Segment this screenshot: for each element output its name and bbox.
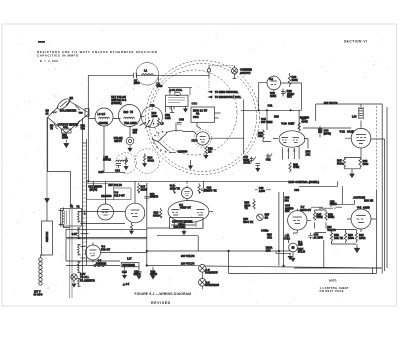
svg-text:△ 6-7: △ 6-7 bbox=[122, 282, 130, 286]
filament row box 1 bbox=[66, 229, 147, 237]
svg-text:A450: A450 bbox=[259, 189, 266, 193]
crystal oven box bbox=[166, 95, 189, 106]
bus 180 volts bbox=[147, 266, 380, 269]
tube V-10 envelope bbox=[279, 131, 305, 147]
svg-text:330K: 330K bbox=[302, 119, 308, 123]
tube V-6 bbox=[182, 188, 193, 199]
wire R cluster top bbox=[315, 225, 327, 233]
switch S-3 wafer contacts bbox=[152, 131, 171, 153]
svg-text:V-2: V-2 bbox=[269, 77, 273, 81]
wire antenna riser bbox=[208, 66, 210, 79]
wire V5 right bbox=[209, 211, 213, 213]
svg-text:K = 1,000: K = 1,000 bbox=[40, 59, 58, 63]
filament tap wires bbox=[81, 212, 126, 224]
terminal E1 bbox=[207, 69, 210, 72]
label to microvolt dial bbox=[209, 96, 213, 98]
svg-text:6.3V: 6.3V bbox=[72, 232, 78, 236]
svg-text:A-FC XTAL: A-FC XTAL bbox=[169, 88, 183, 92]
label 117 jumper bbox=[48, 287, 49, 289]
svg-text:REVISED: REVISED bbox=[151, 301, 171, 305]
svg-text:500: 500 bbox=[285, 198, 290, 202]
cap C18 bbox=[144, 183, 149, 202]
trimmer C33 bbox=[266, 154, 272, 160]
svg-text:180Ω: 180Ω bbox=[359, 236, 365, 240]
tube V-5 envelope bbox=[168, 201, 209, 223]
svg-text:220K: 220K bbox=[141, 187, 147, 191]
svg-text:L17: L17 bbox=[127, 257, 132, 261]
filament taps dots bbox=[88, 181, 90, 183]
resistor R64 bbox=[157, 118, 159, 127]
jack pulse input bbox=[126, 137, 134, 145]
svg-text:750: 750 bbox=[81, 126, 86, 130]
right bundle verticals bbox=[372, 139, 382, 274]
cap C14 cluster bbox=[116, 164, 121, 169]
svg-text:R43: R43 bbox=[274, 115, 279, 119]
svg-text:FIGURE 6-1 —WIRING DIAGRAM: FIGURE 6-1 —WIRING DIAGRAM bbox=[135, 292, 192, 296]
V5 triode b bbox=[197, 210, 205, 216]
svg-text:330K: 330K bbox=[328, 215, 334, 219]
svg-text:OC3/VR75: OC3/VR75 bbox=[205, 271, 218, 275]
svg-text:1K: 1K bbox=[208, 149, 211, 153]
tube V-2 bbox=[267, 76, 281, 90]
wire cathode join bbox=[344, 169, 360, 172]
wire C49 row bbox=[255, 189, 271, 191]
L17 box bbox=[121, 263, 139, 267]
meter needle bbox=[60, 100, 71, 108]
wire V2 plate bbox=[281, 83, 302, 110]
wire C37 bbox=[353, 198, 359, 200]
coil L1 shield circle bbox=[136, 63, 159, 86]
svg-text:C32: C32 bbox=[266, 157, 271, 161]
trimmer C47 bbox=[250, 157, 256, 163]
svg-text:L40: L40 bbox=[352, 114, 357, 118]
wire bus drop dots bbox=[266, 110, 267, 111]
wire chokes down bbox=[89, 119, 131, 173]
svg-text:TNA: TNA bbox=[124, 121, 129, 125]
wire v8 top bbox=[92, 243, 94, 263]
wire V1 out bbox=[203, 138, 244, 146]
svg-text:2600 TK: 2600 TK bbox=[170, 186, 180, 190]
vertical pair feed bbox=[279, 192, 284, 266]
svg-text:ON NEXT PAGE: ON NEXT PAGE bbox=[320, 289, 344, 293]
wire V5 bottom rail bbox=[171, 224, 195, 226]
svg-text:5604 TK: 5604 TK bbox=[243, 220, 253, 224]
svg-text:300Ω: 300Ω bbox=[148, 158, 154, 162]
resistor R59 bbox=[330, 233, 332, 243]
bus 330 volts bbox=[89, 180, 289, 182]
dashed can D2 bbox=[135, 149, 160, 174]
resistor R51 bbox=[205, 146, 207, 155]
ground xtal bbox=[184, 109, 188, 112]
svg-text:C14: C14 bbox=[115, 169, 120, 173]
right outer bus bbox=[382, 104, 387, 268]
svg-text:60 CPS: 60 CPS bbox=[34, 293, 43, 297]
svg-text:100K: 100K bbox=[292, 78, 298, 82]
svg-text:R25 100Ω: R25 100Ω bbox=[174, 225, 186, 229]
long vertical feed bbox=[146, 183, 148, 266]
resistor in D2 bbox=[143, 154, 145, 163]
svg-text:12K: 12K bbox=[266, 248, 271, 252]
svg-text:(100V): (100V) bbox=[90, 187, 98, 191]
ground switch bbox=[190, 160, 192, 166]
T1 secondary 5 bbox=[78, 279, 81, 287]
cap C28 bbox=[122, 267, 127, 275]
coil L4 bbox=[124, 117, 135, 118]
ground V12 cathode bbox=[351, 172, 353, 174]
wire V7 bottom bbox=[293, 233, 297, 234]
V5 triode a bbox=[172, 210, 180, 216]
V10 pins bbox=[283, 146, 300, 160]
svg-text:500 TRIM: 500 TRIM bbox=[261, 120, 272, 124]
choke L19 bbox=[116, 160, 128, 162]
bottom rail bbox=[294, 267, 382, 269]
svg-text:500: 500 bbox=[183, 150, 188, 154]
wire riser top join bbox=[83, 118, 87, 143]
wire P5 bus link bbox=[201, 278, 203, 280]
carrier output jack J1 bbox=[231, 68, 237, 74]
jack filaments bbox=[71, 274, 77, 280]
tube V-12 bbox=[351, 128, 371, 148]
cap cluster C50 bbox=[256, 164, 261, 169]
wire V2 grid feed bbox=[259, 82, 267, 110]
terminal strip jumper bbox=[66, 265, 120, 267]
svg-text:1000: 1000 bbox=[152, 114, 158, 118]
label to ring fiducial bbox=[209, 91, 213, 93]
wire V10 right lead bbox=[304, 139, 308, 149]
wire microvolt dial column bbox=[243, 100, 245, 155]
line cord connector bbox=[39, 258, 42, 261]
svg-text:6SL7-GT: 6SL7-GT bbox=[114, 193, 125, 197]
resistor R40 bbox=[288, 73, 291, 87]
wire top row v9 bbox=[337, 186, 355, 204]
svg-text:R68 1M: R68 1M bbox=[364, 199, 373, 203]
filament row box 2 bbox=[66, 239, 147, 261]
terminal block TB6 bbox=[85, 109, 89, 117]
ground omz bbox=[183, 229, 185, 231]
ground C20 bbox=[137, 276, 141, 279]
wire heater row2 bbox=[147, 227, 170, 229]
cap C19 bbox=[151, 267, 156, 276]
ground D1 bbox=[124, 167, 128, 170]
svg-text:560K: 560K bbox=[317, 215, 323, 219]
cap C20 bbox=[137, 267, 142, 276]
oven thermostat oval bbox=[175, 92, 181, 95]
resistor R55 bbox=[253, 199, 255, 210]
tube V-7 bbox=[288, 211, 307, 230]
svg-text:2.5: 2.5 bbox=[102, 112, 106, 116]
chassis arrow bbox=[45, 199, 49, 203]
resistor in D1 bbox=[125, 157, 127, 166]
wire oven drop bbox=[170, 88, 190, 96]
wire C36 row link bbox=[311, 206, 342, 208]
resistor R50 bbox=[298, 123, 300, 132]
tube V-3b bbox=[125, 203, 145, 223]
svg-text:TO RING FIDUCIAL: TO RING FIDUCIAL bbox=[215, 90, 239, 94]
ground 300v end bbox=[276, 251, 291, 256]
wire arc link bbox=[175, 123, 177, 132]
capacitor C1 bbox=[134, 73, 137, 78]
can C17 box bbox=[87, 184, 114, 200]
jack P-5 bbox=[199, 265, 207, 273]
svg-text:5A: 5A bbox=[196, 112, 199, 116]
svg-text:BULB: BULB bbox=[298, 250, 305, 254]
cap C45 bbox=[177, 123, 182, 125]
wire C23 stem bbox=[203, 181, 205, 186]
svg-text:M1: M1 bbox=[70, 96, 74, 100]
resistor R17 bbox=[137, 183, 139, 193]
svg-text:1000: 1000 bbox=[62, 136, 68, 140]
svg-text:.01 MFD: .01 MFD bbox=[313, 235, 323, 239]
transformer T1 box bbox=[61, 209, 82, 227]
choke L21 bbox=[287, 234, 288, 242]
bridge resistor ticks R12 bbox=[75, 121, 80, 128]
wire drop V10 bbox=[298, 110, 300, 129]
wire R cluster bottoms bbox=[332, 242, 357, 246]
svg-text:1500: 1500 bbox=[348, 236, 354, 240]
svg-text:CHOKE: CHOKE bbox=[99, 121, 109, 125]
resistor R46 bbox=[262, 129, 264, 139]
svg-text:1800Ω: 1800Ω bbox=[103, 158, 111, 162]
dashed panel boundary bbox=[376, 106, 378, 190]
top right corner wire bbox=[303, 127, 351, 129]
T1 secondary 2 bbox=[78, 228, 81, 238]
oscillator box bbox=[191, 107, 215, 122]
bus 105V bbox=[241, 109, 302, 111]
cap C34 bbox=[318, 129, 322, 134]
coil L3 bbox=[99, 117, 110, 118]
ground V13 bbox=[292, 252, 294, 258]
svg-text:6AK6: 6AK6 bbox=[363, 206, 370, 210]
svg-text:CAL: CAL bbox=[63, 125, 69, 129]
svg-text:AMPL: AMPL bbox=[130, 121, 138, 125]
ground D2 bbox=[143, 164, 147, 167]
coil L40 bbox=[359, 104, 363, 128]
tube V-9 bbox=[351, 209, 371, 229]
wire V3a feed bbox=[105, 181, 107, 204]
svg-text:NOTE:: NOTE: bbox=[329, 279, 337, 283]
V10 triode a bbox=[282, 138, 289, 143]
svg-text:V-9: V-9 bbox=[357, 206, 361, 210]
svg-text:FILAMENTS: FILAMENTS bbox=[80, 278, 95, 282]
wire switch up bbox=[46, 203, 48, 222]
svg-text:JUMPER: JUMPER bbox=[96, 261, 107, 265]
wire C34 bbox=[319, 126, 321, 137]
wire L21 bottom bbox=[288, 241, 290, 243]
medium dashed shield circle bbox=[152, 70, 237, 155]
mod control panel line bbox=[299, 181, 338, 186]
svg-text:25MFD TK: 25MFD TK bbox=[204, 188, 217, 192]
wire V10 left lead bbox=[273, 138, 278, 140]
T1 secondary 1 bbox=[78, 212, 81, 222]
coil L1 bbox=[142, 74, 154, 76]
wire xfmr tap3 bbox=[81, 233, 89, 235]
wire bridge bottom bbox=[65, 133, 67, 143]
wire heater row bbox=[104, 171, 125, 173]
resistor R19 bbox=[160, 208, 162, 218]
wire wafer2 bbox=[140, 119, 154, 129]
bottom return line bbox=[229, 251, 377, 274]
cap C23 bbox=[201, 186, 206, 193]
can V-3 box bbox=[114, 188, 131, 200]
svg-text:C39: C39 bbox=[294, 188, 299, 192]
bridge resistor ticks R11 bbox=[74, 104, 80, 110]
ground C19 bbox=[151, 276, 155, 279]
svg-text:25V: 25V bbox=[285, 209, 290, 213]
shielded riser left bbox=[83, 143, 87, 280]
xtal oven top plate bbox=[168, 88, 192, 92]
svg-text:47Ω: 47Ω bbox=[267, 235, 272, 239]
transformer T1 bbox=[59, 211, 64, 225]
svg-text:300 VOLTS: 300 VOLTS bbox=[181, 254, 195, 258]
svg-text:V-12: V-12 bbox=[340, 130, 346, 134]
wire top bus bbox=[88, 74, 209, 76]
wire rect taps bbox=[81, 247, 147, 259]
svg-text:1000: 1000 bbox=[134, 81, 140, 85]
svg-text:MOD CONTROL (PANEL): MOD CONTROL (PANEL) bbox=[289, 180, 320, 184]
svg-text:CAPACITIES IN MMFD: CAPACITIES IN MMFD bbox=[37, 54, 78, 58]
svg-text:6AU6-GT: 6AU6-GT bbox=[300, 208, 312, 212]
resistor R22 bbox=[198, 184, 200, 194]
resistor R58 bbox=[325, 210, 327, 225]
svg-text:JACK: JACK bbox=[243, 161, 250, 165]
svg-text:165 VOLTS: 165 VOLTS bbox=[324, 101, 338, 105]
junction dot bbox=[290, 110, 291, 111]
svg-text:1MFD: 1MFD bbox=[330, 202, 337, 206]
cap C17 bbox=[91, 181, 96, 192]
svg-text:INPUT: INPUT bbox=[114, 139, 122, 143]
bus 300 volts bbox=[147, 250, 291, 252]
svg-text:OC3/VR105: OC3/VR105 bbox=[205, 283, 220, 287]
big dashed shield circle outer bbox=[146, 61, 260, 175]
svg-text:COM+: COM+ bbox=[261, 229, 269, 233]
svg-text:25MFD: 25MFD bbox=[150, 195, 159, 199]
svg-text:390Ω: 390Ω bbox=[153, 213, 159, 217]
trimmer C26 zero set bbox=[281, 89, 287, 97]
svg-text:V-10: V-10 bbox=[281, 122, 287, 126]
svg-text:TO MICROVOLT DIAL: TO MICROVOLT DIAL bbox=[215, 95, 242, 99]
tube V-1 bbox=[196, 132, 209, 145]
svg-text:6AQ5: 6AQ5 bbox=[347, 130, 354, 134]
wire V6 feed bbox=[186, 181, 188, 184]
wire jack stem bbox=[233, 66, 237, 79]
T1 secondary 3 bbox=[78, 245, 81, 255]
dashed can D1 bbox=[116, 153, 137, 174]
svg-text:C45: C45 bbox=[179, 118, 184, 122]
resistor R61 bbox=[355, 233, 357, 243]
thermistor R57 bbox=[257, 214, 264, 221]
svg-text:5Y3-GT: 5Y3-GT bbox=[101, 247, 110, 251]
wire T1 top lead bbox=[64, 208, 70, 228]
svg-text:4700: 4700 bbox=[106, 194, 112, 198]
tube eye V-13 bbox=[289, 243, 298, 252]
output meter zero box bbox=[169, 218, 203, 229]
wire box2 right bbox=[215, 113, 221, 118]
ground pulse jack bbox=[128, 148, 132, 151]
ground V3 bbox=[130, 231, 134, 234]
bridge wires bbox=[48, 101, 89, 134]
wire R cluster feed bbox=[307, 207, 326, 220]
svg-text:R16: R16 bbox=[124, 110, 129, 114]
svg-text:C28: C28 bbox=[122, 270, 127, 274]
cap C36 bbox=[321, 206, 335, 209]
svg-text:1000: 1000 bbox=[157, 84, 163, 88]
switch wafer 2 contacts bbox=[145, 120, 155, 128]
cap C38 bbox=[308, 233, 313, 240]
svg-text:6E5: 6E5 bbox=[298, 243, 303, 247]
svg-text:(MFD): (MFD) bbox=[324, 131, 331, 135]
ground C28 bbox=[123, 275, 127, 278]
svg-text:OSC: OSC bbox=[192, 102, 198, 106]
wire V3b feed bbox=[134, 181, 136, 203]
svg-text:REVERSE: REVERSE bbox=[123, 263, 136, 267]
svg-text:OSC: OSC bbox=[193, 115, 199, 119]
resistor R47a bbox=[313, 210, 315, 225]
ground R cluster bbox=[356, 244, 358, 248]
resistor R60 bbox=[344, 233, 346, 243]
svg-text:10K: 10K bbox=[306, 152, 311, 156]
resistor R48 bbox=[289, 163, 291, 173]
ground V1 bbox=[204, 155, 208, 158]
wire left loop bbox=[48, 117, 71, 207]
cathode resistor V3 bbox=[130, 223, 132, 231]
left drop 323 bbox=[323, 240, 325, 268]
svg-text:6SN7: 6SN7 bbox=[288, 122, 295, 126]
svg-text:500Ω: 500Ω bbox=[284, 236, 290, 240]
svg-text:4000: 4000 bbox=[363, 162, 369, 166]
svg-text:470K: 470K bbox=[293, 165, 299, 169]
bridge resistor ticks R8 bbox=[53, 122, 58, 129]
big dashed shield circle inner bbox=[149, 64, 257, 172]
dot bus joins bbox=[228, 250, 230, 252]
ground jack bbox=[72, 284, 76, 287]
tube V-3a bbox=[98, 204, 114, 220]
svg-text:1Ω: 1Ω bbox=[265, 215, 269, 219]
wire xtal pins bbox=[170, 106, 186, 112]
V5 pins bbox=[174, 222, 203, 228]
svg-text:6.3V: 6.3V bbox=[98, 170, 104, 174]
switch S-3 shield circle bbox=[142, 107, 163, 128]
wire V12 sides bbox=[345, 138, 384, 271]
svg-text:MOD: MOD bbox=[192, 139, 198, 143]
svg-text:SECTION VI: SECTION VI bbox=[344, 40, 367, 44]
wire V5 cathode rail bbox=[157, 236, 198, 251]
tube V-8 rectifier bbox=[86, 245, 101, 260]
bridge resistor ticks R9 bbox=[51, 111, 57, 113]
svg-text:C31: C31 bbox=[268, 104, 273, 108]
switch rotor lines bbox=[153, 130, 183, 153]
svg-text:10K TK: 10K TK bbox=[334, 236, 343, 240]
svg-text:BOLOMETER: BOLOMETER bbox=[60, 109, 77, 113]
wire R46 bottom bbox=[263, 139, 271, 142]
svg-text:SWITCH: SWITCH bbox=[45, 232, 49, 242]
svg-text:SET: SET bbox=[287, 95, 292, 99]
svg-text:560Ω: 560Ω bbox=[337, 161, 343, 165]
wire V9 sides bbox=[347, 218, 377, 220]
wire switch riser bbox=[166, 106, 172, 112]
pin x marks V10 bbox=[287, 150, 295, 152]
wire choke bus into switch bbox=[141, 116, 145, 118]
svg-text:TK: TK bbox=[244, 206, 248, 210]
page number mark bbox=[38, 41, 45, 43]
wire box to tube bbox=[197, 122, 201, 129]
svg-text:470: 470 bbox=[133, 131, 138, 135]
wire drop R46 bbox=[266, 110, 268, 130]
ground C50 bbox=[256, 168, 260, 171]
T1 secondary 4 bbox=[78, 262, 81, 272]
potentiometer R10 bbox=[62, 129, 72, 133]
svg-text:57K: 57K bbox=[258, 134, 263, 138]
choke shield L3 bbox=[95, 108, 113, 126]
